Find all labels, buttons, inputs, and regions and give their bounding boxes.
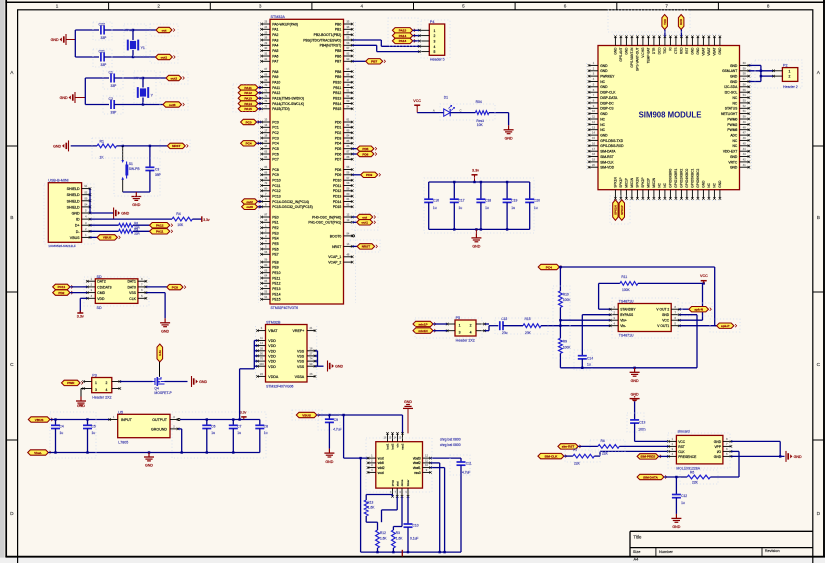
svg-text:NRST: NRST <box>332 245 341 249</box>
port PA15 (to P4) <box>392 28 419 33</box>
svg-text:Header 2X2: Header 2X2 <box>92 396 111 400</box>
capacitor C12 <box>672 477 687 514</box>
port PD2 <box>53 290 73 295</box>
resistor R3 <box>119 227 141 235</box>
svg-text:VBUS: VBUS <box>70 236 80 240</box>
svg-text:PD2: PD2 <box>335 131 342 135</box>
ground GND (simcard) <box>786 451 802 462</box>
svg-text:SD: SD <box>97 275 102 279</box>
svg-text:PB0: PB0 <box>335 22 342 26</box>
svg-text:1u: 1u <box>211 431 215 435</box>
svg-text:PE10: PE10 <box>272 271 280 275</box>
svg-text:BOOT0: BOOT0 <box>330 234 342 238</box>
wire <box>619 445 668 447</box>
svg-text:MOSFET-P: MOSFET-P <box>154 391 172 395</box>
svg-text:done: done <box>400 479 404 486</box>
wire <box>317 414 403 416</box>
port NRST (right of STM32A) <box>352 244 377 249</box>
svg-text:S1: S1 <box>129 162 133 166</box>
capacitor C9 <box>325 415 342 449</box>
wire (to charger vin) <box>402 415 404 433</box>
wire <box>117 145 168 147</box>
svg-text:GPS-VANT-IN: GPS-VANT-IN <box>630 47 634 68</box>
wire <box>559 353 561 368</box>
svg-text:GND: GND <box>714 455 722 459</box>
mcu power block STM32B <box>256 320 317 388</box>
svg-text:SPK1N: SPK1N <box>614 205 618 215</box>
svg-text:L7805: L7805 <box>118 440 128 444</box>
svg-text:STM32A: STM32A <box>271 15 286 19</box>
svg-text:GND: GND <box>72 212 80 216</box>
svg-text:R11: R11 <box>621 275 627 279</box>
resistor R4 <box>172 212 192 227</box>
svg-text:CLK: CLK <box>129 297 136 301</box>
svg-text:Header 2X2: Header 2X2 <box>456 339 475 343</box>
port out3 <box>163 102 184 107</box>
svg-text:VCC: VCC <box>662 319 670 323</box>
svg-text:VREF+: VREF+ <box>293 329 305 333</box>
svg-text:VCC: VCC <box>700 274 708 278</box>
svg-text:P5: P5 <box>456 316 461 320</box>
ground GND (crystal Y1) <box>51 34 76 45</box>
svg-text:PB10: PB10 <box>333 81 341 85</box>
svg-text:DISP-DATA: DISP-DATA <box>600 96 618 100</box>
svg-text:PA12: PA12 <box>156 224 164 228</box>
svg-text:P2: P2 <box>783 63 788 67</box>
svg-text:R4: R4 <box>176 212 181 216</box>
wire <box>664 476 687 478</box>
wire (amp bottom rail) <box>560 367 697 369</box>
svg-text:B: B <box>10 215 13 221</box>
svg-text:PB3(JTDO/TRACESWO): PB3(JTDO/TRACESWO) <box>303 38 341 42</box>
svg-text:PWM2: PWM2 <box>727 123 737 127</box>
svg-text:R13: R13 <box>367 501 373 505</box>
svg-text:GPIO5/KBC1: GPIO5/KBC1 <box>691 169 695 188</box>
svg-text:VBAT: VBAT <box>268 329 278 333</box>
svg-text:GND: GND <box>730 166 738 170</box>
svg-text:C17: C17 <box>459 198 465 202</box>
wire (vbat1 down) <box>431 468 445 552</box>
svg-text:C10: C10 <box>413 524 419 528</box>
power 3.3v (USB pullup) <box>192 216 210 222</box>
svg-text:PA5: PA5 <box>272 49 278 53</box>
svg-text:Number: Number <box>659 549 674 554</box>
resistor R12 <box>376 530 388 552</box>
svg-text:B: B <box>817 215 820 221</box>
resistor R04 <box>475 100 489 127</box>
svg-text:GPS-DBG-TXD: GPS-DBG-TXD <box>600 139 624 143</box>
svg-text:PC8: PC8 <box>172 285 178 289</box>
svg-text:GND: GND <box>600 85 608 89</box>
svg-text:1u: 1u <box>433 206 437 210</box>
svg-text:Size: Size <box>633 549 641 554</box>
svg-text:vbat3: vbat3 <box>413 457 421 461</box>
ground GND (C12) <box>671 514 681 529</box>
wire <box>133 230 150 232</box>
crystal Y <box>134 76 154 98</box>
svg-text:1: 1 <box>459 324 461 328</box>
header P3 Header 2X2 <box>82 374 121 400</box>
resistor R3 (charger) <box>392 530 404 552</box>
wire (to simcard VCC) <box>635 440 669 442</box>
port PC4 (left of STM32A) <box>241 141 262 146</box>
svg-text:PD4: PD4 <box>335 142 342 146</box>
svg-text:PB4(NJTRST): PB4(NJTRST) <box>320 44 342 48</box>
svg-text:PC4: PC4 <box>246 142 252 146</box>
svg-text:vin: vin <box>396 443 400 447</box>
svg-text:P4: P4 <box>430 20 435 24</box>
resistor R2 <box>119 221 141 229</box>
ground GND (STM32B) <box>328 361 344 372</box>
svg-text:mic1P: mic1P <box>418 322 427 326</box>
svg-text:PB14: PB14 <box>333 102 341 106</box>
port mic1P <box>413 321 436 326</box>
svg-text:SIM-DATA: SIM-DATA <box>643 475 658 479</box>
wire (BYPASS to C14) <box>582 315 610 356</box>
svg-text:PD5: PD5 <box>335 147 342 151</box>
svg-text:2: 2 <box>789 75 791 79</box>
svg-text:VDD: VDD <box>268 339 276 343</box>
svg-text:VSSA: VSSA <box>295 375 305 379</box>
svg-text:22R: 22R <box>134 232 140 236</box>
svg-text:C: C <box>459 108 461 112</box>
port TXD (above SIM908) <box>662 15 668 37</box>
svg-text:RST: RST <box>685 47 689 53</box>
port SIM-CLK <box>538 453 567 458</box>
svg-text:TXD: TXD <box>663 19 667 25</box>
svg-text:C21: C21 <box>99 49 105 53</box>
wire <box>433 324 447 331</box>
svg-text:PE3: PE3 <box>272 231 279 235</box>
ground GND (L7805) <box>144 453 154 468</box>
svg-text:vss2: vss2 <box>401 443 405 450</box>
svg-text:GND: GND <box>730 155 738 159</box>
wire (charger bottom rail) <box>361 551 461 553</box>
svg-text:33P: 33P <box>111 84 118 88</box>
svg-text:PE13: PE13 <box>272 287 280 291</box>
svg-text:GND: GND <box>53 145 61 149</box>
svg-text:R3: R3 <box>396 531 400 535</box>
svg-text:100n: 100n <box>638 428 646 432</box>
port VBUS (USB) <box>97 235 120 240</box>
svg-text:VBAT: VBAT <box>702 47 706 55</box>
capacitor C2 <box>109 97 118 115</box>
switch S1 SW-PB <box>121 146 140 192</box>
svg-text:out2: out2 <box>246 200 253 204</box>
wire (D+ line) <box>90 224 119 226</box>
ground GND (reset) <box>53 140 68 151</box>
svg-text:PA13(JTMS-SWDIO): PA13(JTMS-SWDIO) <box>272 97 304 101</box>
svg-text:Title: Title <box>633 535 642 540</box>
svg-text:PWRKEY: PWRKEY <box>600 75 615 79</box>
svg-text:GND: GND <box>600 64 608 68</box>
svg-text:PE9: PE9 <box>272 266 279 270</box>
svg-text:SPK1P: SPK1P <box>619 177 623 187</box>
regulator U5 L7805 <box>108 410 180 444</box>
wire (done pin) <box>393 496 402 530</box>
svg-text:mic1N: mic1N <box>418 329 428 333</box>
svg-text:NC: NC <box>733 139 738 143</box>
svg-text:3: 3 <box>95 388 97 392</box>
svg-text:PA13: PA13 <box>399 39 407 43</box>
svg-text:PA12: PA12 <box>244 91 252 95</box>
svg-text:R04: R04 <box>476 100 482 104</box>
svg-text:Y1: Y1 <box>141 46 145 50</box>
svg-text:PB11: PB11 <box>333 86 341 90</box>
svg-text:PC8: PC8 <box>272 168 279 172</box>
svg-text:GND: GND <box>132 203 140 207</box>
svg-text:C4: C4 <box>60 424 64 428</box>
port PC8 <box>167 284 186 289</box>
svg-text:PB7: PB7 <box>335 60 342 64</box>
svg-text:out: out <box>162 28 167 32</box>
svg-text:39P: 39P <box>155 173 162 177</box>
svg-text:PC2: PC2 <box>272 131 279 135</box>
capacitor C4 <box>51 420 64 453</box>
port spk-N <box>679 307 711 312</box>
wire (Vin+) <box>560 319 610 321</box>
svg-text:4.7uF: 4.7uF <box>462 470 470 474</box>
port PWR <box>62 380 83 385</box>
svg-text:PC11: PC11 <box>58 285 66 289</box>
power VCC (amp) <box>700 274 708 283</box>
svg-text:PC15-OSC32_OUT(PC15): PC15-OSC32_OUT(PC15) <box>272 205 313 209</box>
svg-text:C3: C3 <box>155 167 159 171</box>
capacitor C14 <box>578 356 593 368</box>
svg-text:33P: 33P <box>101 36 108 40</box>
svg-text:1: 1 <box>434 29 436 33</box>
port PA14 (to P4) <box>392 33 419 38</box>
svg-text:SIM-CLK: SIM-CLK <box>600 160 614 164</box>
svg-text:0.1uF: 0.1uF <box>410 537 418 541</box>
svg-text:chrg bat 0800: chrg bat 0800 <box>440 443 461 447</box>
svg-text:PD2: PD2 <box>58 291 64 295</box>
svg-text:DAT0: DAT0 <box>127 285 136 289</box>
wire <box>366 516 377 530</box>
svg-text:PE5: PE5 <box>272 242 279 246</box>
svg-text:PE8: PE8 <box>272 260 279 264</box>
svg-text:VBAT: VBAT <box>713 47 717 55</box>
svg-text:PB12: PB12 <box>333 91 341 95</box>
port PA11 <box>150 229 173 234</box>
svg-text:PA15(JTDI): PA15(JTDI) <box>272 107 289 111</box>
svg-text:PE2: PE2 <box>272 226 279 230</box>
port out <box>156 27 175 32</box>
svg-text:GND: GND <box>662 313 670 317</box>
svg-text:NC: NC <box>733 144 738 148</box>
wire (D- line) <box>90 230 119 232</box>
svg-text:C6: C6 <box>211 424 215 428</box>
svg-text:PA14: PA14 <box>399 34 407 38</box>
port out1 <box>156 54 176 59</box>
ground GND (Q4) <box>192 376 208 387</box>
capacitor C7 <box>229 420 242 453</box>
port out1 (to PH1) <box>352 220 375 225</box>
svg-text:PA8: PA8 <box>272 70 278 74</box>
svg-text:100: 100 <box>259 362 264 366</box>
svg-text:6: 6 <box>564 4 567 9</box>
wire <box>659 455 669 457</box>
svg-text:RST: RST <box>678 445 685 449</box>
svg-text:1: 1 <box>95 381 97 385</box>
svg-text:out3: out3 <box>246 205 253 209</box>
svg-text:PB15: PB15 <box>333 107 341 111</box>
svg-text:PC11: PC11 <box>272 184 280 188</box>
svg-text:PA15: PA15 <box>399 29 407 33</box>
wire <box>485 324 499 331</box>
wire <box>165 381 188 383</box>
svg-text:VDD: VDD <box>268 354 276 358</box>
svg-text:SIM908 MODULE: SIM908 MODULE <box>639 110 702 119</box>
svg-text:PD5: PD5 <box>362 147 368 151</box>
svg-text:GROUND: GROUND <box>151 427 167 431</box>
svg-text:PB1: PB1 <box>335 28 342 32</box>
svg-text:V-CHG: V-CHG <box>641 47 645 58</box>
svg-text:NC: NC <box>600 128 605 132</box>
wire (prog pin to R13) <box>366 495 392 501</box>
port SIM-PRES <box>637 454 661 459</box>
svg-text:PH1-OSC_OUT(PH1): PH1-OSC_OUT(PH1) <box>308 221 341 225</box>
svg-text:INPUT: INPUT <box>121 418 133 422</box>
wire <box>159 362 161 377</box>
svg-text:PD8: PD8 <box>335 168 342 172</box>
svg-text:CLK: CLK <box>678 450 685 454</box>
svg-text:VPP: VPP <box>714 445 721 449</box>
port PD6 (right of STM32A) <box>352 151 377 156</box>
svg-text:PE7: PE7 <box>272 253 279 257</box>
svg-text:NC: NC <box>733 96 738 100</box>
svg-text:DCD: DCD <box>658 47 662 55</box>
resistor R1 <box>97 140 117 160</box>
capacitor C20 <box>525 182 540 229</box>
svg-text:PA11: PA11 <box>244 86 252 90</box>
header P4 Header 5 <box>418 20 445 61</box>
wire <box>417 108 444 112</box>
diode D1 LED <box>444 96 455 117</box>
svg-text:SW-PB: SW-PB <box>129 167 141 171</box>
svg-text:PC3: PC3 <box>272 136 279 140</box>
svg-text:C7: C7 <box>237 424 241 428</box>
svg-text:2: 2 <box>434 34 436 38</box>
svg-text:VCAP_1: VCAP_1 <box>328 255 341 259</box>
svg-text:RXD: RXD <box>679 19 683 25</box>
capacitor C16 <box>424 182 439 229</box>
wire (jog up to CLK pin) <box>594 451 668 456</box>
svg-text:PRESENCE: PRESENCE <box>678 455 697 459</box>
wire (timer pin to C10) <box>407 496 409 524</box>
power 3.3v (cap bank) <box>472 168 480 182</box>
charger U? chrg bat 0800 <box>367 432 461 498</box>
svg-text:GND: GND <box>718 47 722 55</box>
svg-text:MIC1N: MIC1N <box>630 177 634 188</box>
svg-text:SIM-PRES: SIM-PRES <box>640 455 655 459</box>
amplifier U? TS4871 <box>609 299 681 337</box>
svg-text:GPS-DBG-RXD: GPS-DBG-RXD <box>600 144 624 148</box>
svg-text:33P: 33P <box>101 63 108 67</box>
svg-text:C5: C5 <box>92 424 96 428</box>
svg-text:PA10: PA10 <box>272 81 280 85</box>
svg-text:VDDA: VDDA <box>268 375 279 379</box>
svg-text:PC9: PC9 <box>272 173 279 177</box>
svg-text:GND: GND <box>696 47 700 55</box>
svg-text:TXD: TXD <box>663 47 667 54</box>
svg-text:PE11: PE11 <box>272 276 280 280</box>
ground GND (amp) <box>630 368 640 383</box>
svg-text:SIM-VDD: SIM-VDD <box>600 166 615 170</box>
wire <box>75 30 99 57</box>
ground GND (crystal Y) <box>60 92 86 103</box>
svg-text:PB7: PB7 <box>371 60 377 64</box>
svg-text:GND: GND <box>600 69 608 73</box>
ground GND (C13 top) <box>630 392 640 420</box>
svg-text:V OUT1: V OUT1 <box>657 324 669 328</box>
svg-text:S4: S4 <box>84 203 88 207</box>
port SPK1P (below SIM908) <box>619 200 624 221</box>
resistor R10 <box>559 267 572 307</box>
svg-text:PA14: PA14 <box>244 102 252 106</box>
svg-text:20u: 20u <box>502 331 508 335</box>
svg-text:C9: C9 <box>334 418 338 422</box>
svg-text:TS4871U: TS4871U <box>619 334 634 338</box>
resistor R8 <box>598 439 619 456</box>
wire <box>85 78 109 105</box>
svg-text:NC: NC <box>600 123 605 127</box>
svg-text:1.6K: 1.6K <box>368 506 375 510</box>
svg-text:GND: GND <box>614 47 618 55</box>
svg-text:Revision: Revision <box>765 548 780 553</box>
svg-text:22K: 22K <box>692 481 699 485</box>
svg-text:GND: GND <box>730 75 738 79</box>
svg-text:bat1: bat1 <box>386 443 390 449</box>
svg-text:I2C-SCL: I2C-SCL <box>725 91 738 95</box>
power VCC (LED) <box>413 99 421 113</box>
svg-text:1u: 1u <box>681 501 685 505</box>
svg-text:3: 3 <box>259 4 262 9</box>
wire (VCC pin) <box>679 283 702 320</box>
svg-text:PE12: PE12 <box>272 282 280 286</box>
svg-text:VDD: VDD <box>268 344 276 348</box>
svg-text:P3: P3 <box>92 374 97 378</box>
svg-text:vout: vout <box>378 457 384 461</box>
svg-text:VDD: VDD <box>268 360 276 364</box>
svg-text:PE4: PE4 <box>272 237 279 241</box>
capacitor C11 <box>457 461 472 552</box>
port Vbat- <box>28 450 51 455</box>
svg-text:3: 3 <box>434 40 436 44</box>
resistor R11 <box>620 275 638 292</box>
svg-text:PB5: PB5 <box>335 49 342 53</box>
svg-text:10K: 10K <box>477 123 484 127</box>
capacitor C6 <box>202 420 215 453</box>
svg-text:PD14: PD14 <box>333 200 342 204</box>
svg-text:PA11: PA11 <box>272 86 280 90</box>
connector USB-B-MINI <box>44 179 94 248</box>
svg-text:VBUS: VBUS <box>302 413 311 417</box>
port SIM-DATA <box>637 474 667 479</box>
wire (GSM-ANT loop to P2) <box>749 65 774 81</box>
svg-text:SIM-RST: SIM-RST <box>600 155 614 159</box>
port PA15 (left of STM32A) <box>238 106 261 111</box>
svg-text:chrg bat 0800: chrg bat 0800 <box>440 438 461 442</box>
svg-text:VSS: VSS <box>297 365 305 369</box>
svg-text:TS4871U: TS4871U <box>619 299 634 303</box>
svg-text:GPS-VANT-OUT: GPS-VANT-OUT <box>636 47 640 71</box>
svg-text:vss3: vss3 <box>414 471 421 475</box>
svg-text:S1: S1 <box>84 184 88 188</box>
wire (bottom rail) <box>48 451 259 453</box>
svg-text:DISP-CLK: DISP-CLK <box>600 91 616 95</box>
svg-text:PC4: PC4 <box>272 142 279 146</box>
